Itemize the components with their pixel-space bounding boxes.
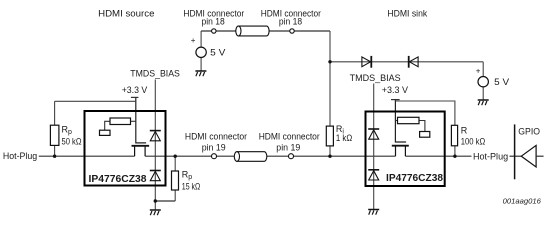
junction R100k/Hot-Plug bbox=[453, 155, 456, 158]
GPIO port bbox=[515, 124, 544, 179]
net +3.3V right tick bbox=[391, 99, 400, 101]
ground below 5V sink bbox=[478, 100, 489, 105]
ground TMDS left bbox=[150, 210, 161, 215]
IC U2 internal resistor bbox=[395, 117, 425, 131]
IC U2 box IP4776CZ38 bbox=[366, 112, 445, 187]
svg-text:pin 18: pin 18 bbox=[202, 16, 225, 26]
wire Hot-Plug to GPIO bbox=[510, 155, 522, 157]
voltage source 5V left bbox=[191, 36, 226, 58]
label Rp 15k bbox=[182, 170, 201, 192]
svg-text:IP4776CZ38: IP4776CZ38 bbox=[89, 174, 147, 185]
wire diode rail to 5V sink bbox=[330, 61, 483, 63]
connector pin 19 point A bbox=[212, 154, 217, 159]
junction Rp15k/TMDS bbox=[154, 199, 157, 202]
IC U1 ESD diode lower bbox=[150, 171, 161, 181]
wire +3.3V branch to R 100k bbox=[395, 101, 455, 156]
connector pin 18 point A bbox=[212, 29, 216, 33]
svg-text:HDMI connector: HDMI connector bbox=[185, 132, 247, 142]
svg-text:pin 19: pin 19 bbox=[202, 143, 226, 153]
wire 5V sink to ground bbox=[482, 87, 484, 100]
resistor Rp 15k body bbox=[172, 171, 179, 190]
ground below 5V source bbox=[195, 71, 206, 76]
svg-text:pin 18: pin 18 bbox=[279, 16, 302, 26]
svg-text:100 kΩ: 100 kΩ bbox=[461, 137, 486, 147]
IC U1 MOSFET Q1 bbox=[132, 146, 150, 156]
svg-text:Hot-Plug: Hot-Plug bbox=[473, 151, 508, 161]
wire pin18 vertical down through Ri bbox=[329, 31, 331, 156]
connector pin 19 point B bbox=[289, 154, 294, 159]
wire +3.3V to Rp 50k bbox=[55, 100, 136, 102]
ground TMDS right bbox=[368, 210, 379, 215]
svg-text:+: + bbox=[191, 36, 196, 45]
svg-text:TMDS_BIAS: TMDS_BIAS bbox=[130, 69, 180, 79]
IC U1 box IP4776CZ38 bbox=[85, 111, 166, 186]
IC U1 control block bbox=[100, 130, 111, 135]
svg-text:50 kΩ: 50 kΩ bbox=[62, 137, 82, 147]
svg-text:+3.3 V: +3.3 V bbox=[382, 85, 408, 95]
svg-text:R: R bbox=[461, 125, 468, 135]
svg-text:HDMI connector: HDMI connector bbox=[259, 132, 320, 142]
wire 5V source to ground bbox=[200, 58, 202, 72]
svg-text:Rp: Rp bbox=[62, 124, 73, 136]
wire +3.3V left vertical / gate feed bbox=[136, 97, 146, 142]
resistor Ri body bbox=[326, 126, 333, 146]
junction Ri/Hot-Plug bbox=[328, 155, 331, 158]
net TMDS_BIAS right vertical bbox=[373, 84, 375, 210]
wire Hot-Plug left bbox=[39, 155, 135, 157]
svg-text:+3.3 V: +3.3 V bbox=[122, 85, 148, 95]
wire top pin18 horizontal bbox=[201, 30, 330, 32]
resistor Rp 50k body bbox=[50, 125, 59, 145]
junction Rp50k/Hot-Plug bbox=[53, 155, 56, 158]
wire Rp 15k column bbox=[174, 156, 176, 201]
wire +3.3V right vertical / gate feed bbox=[395, 100, 406, 142]
svg-text:TMDS_BIAS: TMDS_BIAS bbox=[350, 73, 401, 83]
junction pin18/diode rail bbox=[328, 60, 331, 63]
svg-text:5 V: 5 V bbox=[210, 48, 225, 58]
cable plug top bbox=[236, 26, 269, 36]
svg-text:5 V: 5 V bbox=[494, 77, 509, 87]
svg-text:pin 19: pin 19 bbox=[276, 143, 300, 153]
wire 5V sink drop bbox=[482, 62, 484, 77]
IC U1 internal resistor bbox=[105, 118, 136, 130]
wire Rp 15k bottom to TMDS ground bbox=[155, 200, 175, 202]
wire 5V source riser bbox=[200, 31, 202, 47]
wire Rp 50k column bbox=[54, 101, 56, 156]
voltage source 5V right bbox=[476, 66, 509, 87]
diode D1 bbox=[362, 56, 371, 68]
label R 100k bbox=[461, 125, 486, 146]
svg-text:001aag016: 001aag016 bbox=[503, 196, 542, 205]
svg-text:+: + bbox=[476, 66, 481, 75]
net TMDS_BIAS left vertical bbox=[154, 80, 156, 211]
IC U2 ESD diode lower bbox=[368, 170, 379, 180]
IC U2 control block bbox=[420, 132, 430, 138]
svg-text:15 kΩ: 15 kΩ bbox=[182, 181, 201, 191]
svg-text:HDMI source: HDMI source bbox=[98, 9, 154, 19]
svg-text:HDMI sink: HDMI sink bbox=[387, 9, 427, 19]
svg-text:1 kΩ: 1 kΩ bbox=[336, 133, 353, 143]
svg-text:Rp: Rp bbox=[182, 170, 193, 182]
diode D2 bbox=[409, 56, 418, 68]
junction Rp15k/Hot-Plug bbox=[174, 155, 177, 158]
connector pin 18 point B bbox=[290, 29, 294, 33]
IC U1 ESD diode upper bbox=[150, 131, 161, 141]
label Rp 50k bbox=[62, 124, 82, 146]
wire Hot-Plug mid (pin 19) bbox=[145, 155, 395, 157]
cable plug bottom bbox=[234, 152, 267, 162]
svg-text:IP4776CZ38: IP4776CZ38 bbox=[386, 173, 443, 184]
resistor R 100k body bbox=[451, 125, 457, 146]
wire Hot-Plug right bbox=[405, 155, 471, 157]
svg-text:Hot-Plug: Hot-Plug bbox=[3, 151, 37, 161]
svg-text:GPIO: GPIO bbox=[518, 127, 540, 137]
IC U2 MOSFET Q2 bbox=[392, 146, 409, 157]
label Ri 1k bbox=[336, 124, 353, 143]
net +3.3V left tick bbox=[131, 96, 139, 98]
IC U2 ESD diode upper bbox=[368, 129, 379, 139]
